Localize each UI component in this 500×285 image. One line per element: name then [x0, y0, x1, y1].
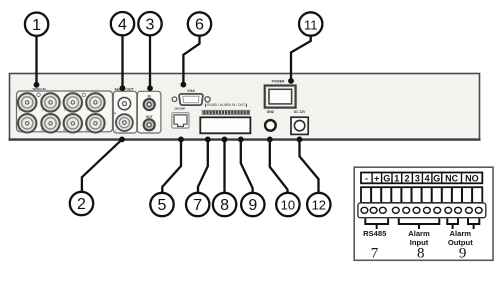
svg-text:2: 2: [77, 196, 86, 213]
svg-text:8: 8: [86, 128, 88, 132]
panel bottom edge: [9, 138, 481, 140]
svg-text:4: 4: [41, 128, 43, 132]
rear panel body: [10, 74, 480, 140]
BNC connector CH5: [63, 93, 83, 111]
VGA screw right: [205, 97, 210, 102]
callout 4: [111, 12, 134, 88]
svg-text:DC 12V: DC 12V: [294, 110, 306, 114]
svg-text:10/100M: 10/100M: [174, 106, 185, 110]
audio out bottom BNC: [115, 114, 135, 132]
svg-text:G: G: [433, 173, 440, 183]
terminal pin header: [202, 110, 249, 114]
callout 1: [25, 13, 48, 85]
svg-text:10: 10: [281, 198, 295, 213]
ground connector: [265, 120, 276, 131]
callout 11: [291, 12, 322, 80]
inset screw-hole row: [358, 203, 486, 218]
svg-text:7: 7: [371, 246, 379, 262]
svg-text:8: 8: [417, 246, 425, 262]
callout 5: [150, 139, 181, 216]
power switch: [265, 86, 296, 108]
svg-text:8: 8: [220, 197, 229, 214]
audio in box: [137, 91, 161, 133]
BNC connector CH7: [85, 93, 105, 111]
svg-text:11: 11: [304, 18, 318, 33]
svg-text:5: 5: [64, 108, 66, 112]
svg-text:1: 1: [32, 17, 41, 34]
svg-text:6: 6: [63, 128, 65, 132]
BNC connector CH6: [63, 114, 83, 132]
callout 9: [241, 139, 265, 216]
BNC connector CH1: [17, 93, 37, 111]
callout 8: [213, 139, 236, 216]
svg-text:VGA: VGA: [187, 89, 195, 93]
svg-text:3: 3: [146, 16, 155, 33]
svg-text:5: 5: [158, 197, 167, 214]
callout 12: [300, 139, 331, 216]
svg-text:NO: NO: [465, 173, 479, 183]
screw hole: [37, 93, 40, 96]
svg-text:4: 4: [425, 173, 430, 183]
svg-text:9: 9: [248, 197, 257, 214]
svg-text:12: 12: [312, 198, 326, 213]
svg-text:POWER: POWER: [272, 80, 285, 84]
svg-text:2: 2: [18, 128, 20, 132]
svg-text:Alarm: Alarm: [408, 229, 430, 238]
audio out box: [113, 91, 137, 133]
BNC connector CH4: [41, 114, 61, 132]
svg-text:Alarm: Alarm: [450, 229, 472, 238]
svg-text:4: 4: [118, 16, 127, 33]
DC power jack: [291, 117, 308, 134]
svg-text:3: 3: [415, 173, 420, 183]
BNC connector CH2: [17, 114, 37, 132]
RCA jack bottom: [144, 119, 155, 130]
bracket alarm output NC: [447, 219, 458, 230]
svg-text:7: 7: [86, 108, 88, 112]
inset detail frame: [354, 167, 493, 260]
svg-text:VIDEO IN: VIDEO IN: [32, 87, 45, 91]
audio marker dot: [114, 112, 116, 114]
svg-text:RS485 / ALARM IN / OUT: RS485 / ALARM IN / OUT: [207, 103, 245, 107]
svg-text:-: -: [365, 173, 368, 183]
RJ45 ethernet port: [172, 113, 189, 128]
svg-text:RS485: RS485: [363, 229, 387, 238]
callout 3: [138, 12, 161, 88]
callout 10: [270, 139, 300, 216]
video-in box: [17, 91, 113, 132]
inset terminal slots: [361, 187, 482, 203]
screw hole: [82, 93, 85, 96]
svg-text:GND: GND: [267, 110, 275, 114]
svg-text:1: 1: [394, 173, 399, 183]
VGA connector U-VGA: [179, 94, 203, 105]
svg-text:1: 1: [18, 108, 20, 112]
svg-text:NC: NC: [445, 173, 458, 183]
terminal block body: [200, 117, 250, 133]
inset label strip: [361, 173, 482, 184]
bracket RS485: [365, 219, 388, 230]
BNC connector CH8: [85, 114, 105, 132]
svg-text:7: 7: [193, 197, 202, 214]
RCA jack top: [144, 99, 155, 110]
svg-text:2: 2: [404, 173, 409, 183]
callout 6: [183, 12, 211, 84]
svg-text:A: A: [115, 129, 117, 133]
label RS485/ALARM IN/OUT with end ticks: [206, 103, 247, 107]
BNC connector CH3: [41, 93, 61, 111]
svg-text:9: 9: [459, 246, 467, 262]
svg-text:6: 6: [195, 17, 204, 34]
bracket alarm input: [399, 219, 440, 230]
callout 2: [70, 139, 122, 215]
svg-text:3: 3: [42, 108, 44, 112]
svg-text:+: +: [374, 173, 379, 183]
callout 7: [186, 139, 209, 216]
bracket alarm output NO: [468, 219, 479, 230]
svg-text:G: G: [383, 173, 390, 183]
VGA screw left: [172, 97, 177, 102]
audio out top connector: [118, 97, 130, 109]
